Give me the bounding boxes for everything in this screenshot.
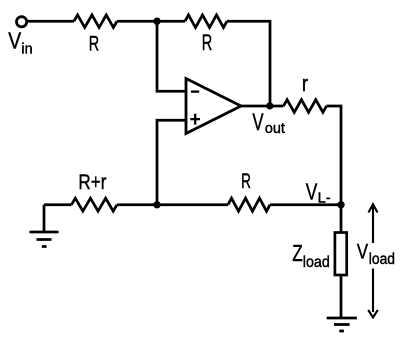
svg-text:load: load: [369, 251, 395, 268]
svg-text:V: V: [252, 109, 263, 136]
svg-text:r: r: [302, 71, 308, 96]
svg-text:V: V: [8, 27, 21, 53]
svg-text:V: V: [357, 240, 368, 263]
svg-text:in: in: [21, 41, 32, 58]
svg-text:R: R: [89, 32, 99, 55]
svg-text:R: R: [241, 169, 251, 193]
svg-text:R+r: R+r: [78, 170, 106, 194]
svg-text:L-: L-: [318, 191, 331, 207]
svg-text:R: R: [202, 30, 213, 55]
svg-text:load: load: [303, 254, 330, 271]
svg-text:Z: Z: [292, 240, 303, 266]
svg-text:out: out: [265, 120, 286, 137]
svg-text:V: V: [306, 178, 318, 204]
